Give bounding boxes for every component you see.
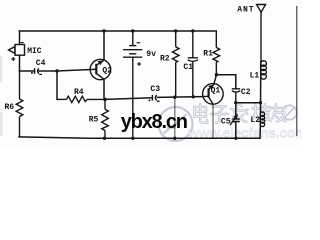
svg-text:L2: L2: [250, 116, 260, 125]
wire Q1 lower lead to bottom rail (washed out): [212, 104, 214, 138]
C5 trimmer arrow: [230, 116, 236, 125]
svg-text:R2: R2: [160, 55, 170, 64]
svg-text:C1: C1: [183, 63, 193, 72]
MIC polarity minus mark: [21, 42, 24, 44]
trimmer capacitor C5: [232, 103, 240, 139]
Q1 emitter arrow: [208, 84, 214, 90]
svg-text:v: v: [151, 50, 156, 59]
svg-text:L1: L1: [250, 72, 260, 81]
resistor R2: [172, 31, 179, 97]
junction C1 at base wire: [192, 95, 195, 98]
scan border line right edge: [296, 6, 298, 136]
resistor R3 (washed out by watermark): [174, 97, 176, 138]
svg-text:C5: C5: [221, 117, 231, 126]
svg-text:R1: R1: [203, 50, 213, 59]
wire top supply rail (negative net): [20, 30, 217, 32]
watermark logo circle: [159, 107, 193, 141]
svg-text:Q2: Q2: [102, 66, 112, 75]
MIC polarity plus mark: [11, 57, 15, 61]
resistor R5: [102, 99, 109, 138]
inductor L1: [261, 61, 267, 79]
inductor L2: [260, 112, 264, 127]
junction C2-C5 at tap wire: [234, 101, 237, 104]
svg-text:R6: R6: [5, 103, 15, 112]
junction battery at top rail: [131, 29, 134, 32]
capacitor C2: [232, 89, 240, 103]
wire C4 to Q2 base node: [39, 70, 57, 72]
C3 polarity plus dot: [149, 99, 151, 101]
wire Q2 lower lead down: [103, 79, 105, 99]
svg-text:C2: C2: [241, 88, 251, 97]
wire MIC bottom lead: [19, 55, 21, 71]
C4 polarity minus mark: [39, 73, 42, 75]
capacitor C3: [152, 95, 156, 101]
wire Q2 upper lead to top rail: [103, 31, 105, 60]
transistor Q1: [203, 84, 224, 105]
junction R5 at bottom rail: [103, 137, 106, 140]
C3 polarity minus mark: [157, 100, 160, 102]
antenna ANT: [257, 5, 266, 62]
battery B1: [123, 31, 142, 138]
transistor Q2: [90, 59, 110, 79]
junction Q2 emitter / R4 / R5 / C3 node: [103, 98, 107, 102]
wire Q1 upper lead to R1 node: [214, 75, 216, 84]
junction R2 at top rail: [174, 29, 177, 32]
wire C3 to Q1 base: [157, 96, 203, 99]
battery polarity minus mark: [137, 42, 141, 44]
junction Q2 collector at top rail: [102, 29, 105, 32]
svg-text:ANT: ANT: [237, 5, 254, 14]
wire node to Q2 base: [57, 69, 96, 71]
resistor R6: [16, 71, 23, 137]
junction Q2 base node: [55, 69, 58, 72]
svg-text:C4: C4: [36, 59, 46, 68]
resistor R1: [213, 31, 220, 75]
svg-text:R4: R4: [74, 88, 84, 97]
wire Q2 emitter node to C3: [105, 98, 152, 100]
scan smudge left edge upper: [0, 56, 2, 82]
wire MIC top lead to top rail: [19, 31, 21, 45]
Q2 emitter arrow: [98, 60, 104, 65]
capacitor C1: [188, 31, 198, 97]
capacitor C4: [35, 68, 39, 74]
junction C1 at top rail: [191, 29, 194, 32]
wire L1 to coil tap node: [260, 79, 262, 113]
wire L2 to bottom rail: [259, 127, 261, 139]
wire audio line MIC to C4: [20, 70, 35, 72]
junction C5 at bottom rail: [234, 137, 237, 140]
microphone MIC: [9, 45, 25, 56]
wire Q2 base node down to R4: [56, 71, 58, 99]
junction battery at bottom rail: [131, 137, 134, 140]
wire R1 node to C2: [216, 75, 235, 89]
svg-text:MIC: MIC: [27, 47, 42, 56]
junction R3 at bottom rail: [173, 137, 176, 140]
resistor R4: [57, 96, 105, 102]
svg-text:C3: C3: [150, 85, 160, 94]
wire bottom ground rail (positive net): [19, 137, 260, 138]
junction R1 / Q1 collector / C2 node: [215, 73, 218, 76]
svg-text:R5: R5: [89, 115, 99, 124]
svg-text:ybx8.cn: ybx8.cn: [121, 111, 187, 133]
wire tank tap C2/C5 node to coil node: [236, 102, 261, 104]
svg-text:Q1: Q1: [211, 87, 221, 96]
C4 polarity plus dot: [31, 72, 33, 74]
junction L1-L2 at tap wire: [259, 101, 262, 104]
battery polarity plus mark: [137, 62, 141, 66]
junction R2-R3 at base wire: [173, 96, 176, 99]
scan smudge left edge lower: [0, 112, 3, 136]
